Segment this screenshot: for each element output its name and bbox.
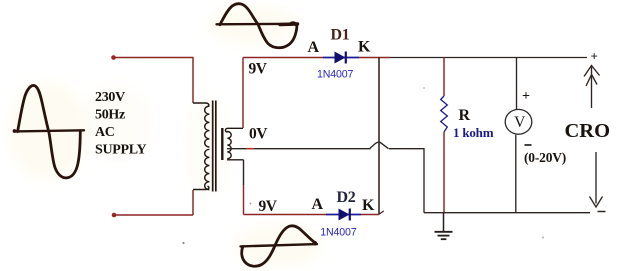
ground symbol: [435, 213, 453, 240]
svg-text:(0-20V): (0-20V): [524, 150, 566, 165]
red tick on center tap wire: [246, 148, 254, 150]
wire: 9V bottom rail to diode D2 anode: [244, 214, 328, 216]
svg-text:R: R: [459, 107, 471, 124]
wire: AC supply top lead: [111, 55, 193, 103]
CRO up arrow: [584, 65, 600, 108]
wire: top rail junction to CRO +: [390, 57, 587, 59]
svg-text:+: +: [591, 49, 598, 64]
svg-text:K: K: [362, 197, 375, 214]
wire: AC supply bottom lead: [112, 190, 193, 217]
junction tick: [379, 211, 384, 214]
wire: D2 cathode to junction: [361, 214, 379, 216]
svg-text:+: +: [522, 89, 530, 104]
wire: resistor top lead: [443, 58, 445, 97]
svg-text:D2: D2: [337, 189, 356, 206]
svg-text:230V: 230V: [95, 90, 125, 105]
wire: junction vertical (cathode bus): [378, 58, 380, 215]
wire: voltmeter bottom lead: [515, 135, 517, 213]
svg-text:1 kohm: 1 kohm: [453, 125, 494, 140]
svg-text:1N4007: 1N4007: [320, 227, 356, 239]
svg-text:D1: D1: [331, 27, 350, 44]
transformer T1 core: [213, 101, 216, 192]
wire: 9V top rail to diode D1 anode: [243, 57, 324, 59]
voltmeter V: [505, 109, 532, 134]
svg-text:9V: 9V: [259, 198, 278, 215]
transformer T1 primary winding: [193, 103, 209, 190]
wire: resistor bottom lead to ground rail: [443, 132, 445, 213]
label: 230V 50Hz AC SUPPLY: [95, 90, 147, 158]
svg-text:SUPPLY: SUPPLY: [95, 143, 147, 158]
transformer T1 secondary winding: [222, 128, 243, 160]
svg-text:9V: 9V: [249, 61, 268, 78]
sine wave above D1: [217, 4, 299, 48]
svg-text:A: A: [312, 196, 324, 213]
sine wave below D2: [241, 226, 318, 266]
label - (CRO bottom): [598, 211, 606, 213]
svg-text:0V: 0V: [249, 126, 268, 143]
input sine wave (left): [13, 85, 84, 177]
wire: center tap 0V with hop over cathode bus: [227, 142, 424, 212]
CRO down arrow: [590, 152, 603, 207]
resistor R: [441, 96, 448, 132]
wire: D1 cathode to junction: [359, 57, 390, 59]
svg-text:AC: AC: [95, 125, 115, 140]
svg-text:K: K: [358, 39, 371, 56]
diode D1: [323, 52, 359, 64]
label - (voltmeter): [525, 144, 532, 146]
svg-text:1N4007: 1N4007: [317, 68, 353, 80]
diode D2: [326, 209, 361, 221]
svg-text:CRO: CRO: [565, 120, 611, 142]
svg-text:A: A: [308, 39, 320, 56]
svg-text:50Hz: 50Hz: [95, 108, 125, 123]
wire: secondary bottom lead down to 9V bottom rail: [243, 160, 245, 215]
wire: voltmeter top lead: [516, 58, 518, 111]
svg-text:V: V: [514, 114, 526, 131]
wire: ground rail (bottom right): [424, 212, 590, 214]
wire: secondary top lead up to 9V rail: [242, 58, 244, 129]
